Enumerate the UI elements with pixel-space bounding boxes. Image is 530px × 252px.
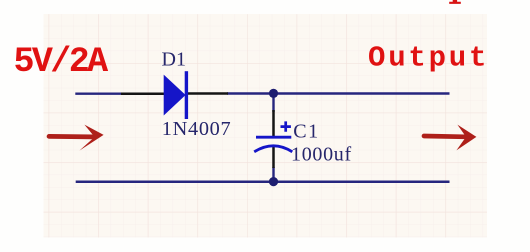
cropped text fragment top-right: [449, 0, 461, 4]
wire vertical upper: [272, 94, 274, 113]
input arrow: [49, 125, 104, 151]
capacitor C1: [254, 110, 292, 168]
wire vertical lower: [272, 167, 274, 182]
junction bottom: [269, 177, 278, 186]
diode D1: [121, 71, 228, 119]
wire bottom: [76, 181, 450, 184]
wire top-left: [75, 92, 122, 94]
svg-text:D1: D1: [162, 49, 186, 71]
svg-text:Output: Output: [368, 42, 489, 75]
svg-text:1000uf: 1000uf: [291, 144, 352, 166]
output arrow: [424, 125, 476, 151]
polarity plus sign: [281, 121, 291, 131]
svg-text:C1: C1: [293, 121, 319, 143]
junction top: [269, 89, 278, 98]
svg-text:1N4007: 1N4007: [162, 118, 232, 140]
wire top-right: [227, 92, 450, 94]
svg-text:5V/2A: 5V/2A: [14, 42, 109, 82]
